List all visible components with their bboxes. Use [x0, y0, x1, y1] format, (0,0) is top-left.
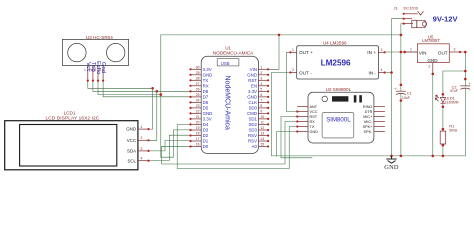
svg-text:5: 5 [260, 87, 262, 91]
svg-text:21: 21 [196, 115, 200, 119]
wire 3v3 top rail [161, 34, 401, 36]
ground symbol [384, 156, 399, 171]
svg-text:2: 2 [141, 136, 143, 140]
svg-text:D5: D5 [203, 106, 209, 111]
svg-text:ANT: ANT [310, 105, 318, 109]
wire ground bus [277, 155, 466, 157]
svg-text:RSV: RSV [248, 139, 257, 144]
svg-text:19: 19 [196, 126, 200, 130]
svg-text:1: 1 [292, 48, 294, 52]
svg-text:LM2596: LM2596 [321, 59, 351, 68]
wire sim gnd drop [277, 132, 298, 156]
svg-text:D0: D0 [203, 144, 209, 149]
svg-text:17: 17 [196, 137, 200, 141]
svg-text:CMD: CMD [247, 111, 257, 116]
svg-text:18: 18 [196, 132, 200, 136]
svg-text:SD1: SD1 [248, 117, 257, 122]
svg-text:NodeMCU-Amica: NodeMCU-Amica [223, 76, 230, 131]
wire 5v branch to led [443, 71, 465, 98]
wire sim rst drop [281, 117, 312, 158]
svg-text:GND: GND [310, 130, 319, 134]
svg-text:SD2: SD2 [248, 122, 257, 127]
wire led to r1 [442, 104, 444, 131]
svg-text:25: 25 [196, 93, 200, 97]
svg-text:1: 1 [141, 125, 143, 129]
wire D3 elbow [173, 130, 190, 157]
svg-text:47uF: 47uF [450, 89, 459, 93]
svg-text:D6: D6 [203, 100, 209, 105]
led LED1 [435, 95, 458, 104]
svg-text:TX: TX [203, 78, 209, 83]
svg-text:26: 26 [196, 87, 200, 91]
wire c1 lower lead [400, 94, 402, 156]
ultrasonic sensor U3 HC-SR04 [62, 35, 128, 82]
svg-text:D1: D1 [203, 139, 209, 144]
svg-text:16: 16 [196, 143, 200, 147]
regulator U5 LM7805T [405, 35, 467, 74]
svg-text:20: 20 [196, 120, 200, 124]
svg-text:EN: EN [251, 83, 257, 88]
svg-text:SIM800L: SIM800L [326, 117, 351, 124]
svg-text:7: 7 [260, 98, 262, 102]
wire D1 to lcd sda [149, 141, 191, 151]
svg-text:SCL: SCL [127, 158, 136, 163]
svg-text:MIC+: MIC+ [363, 115, 373, 119]
svg-text:OUT: OUT [438, 50, 448, 55]
svg-text:IN +: IN + [367, 50, 376, 55]
svg-text:3: 3 [141, 147, 143, 151]
svg-text:560Ω: 560Ω [449, 129, 458, 133]
svg-text:D8: D8 [203, 89, 209, 94]
svg-text:14: 14 [260, 137, 264, 141]
svg-text:RX: RX [310, 120, 316, 124]
buck converter U4 LM2596 [289, 40, 385, 79]
svg-text:10uF: 10uF [402, 96, 411, 100]
svg-text:CLK: CLK [248, 100, 257, 105]
svg-text:C1: C1 [407, 92, 412, 96]
svg-text:LCD DISPLAY 16X2 I2C: LCD DISPLAY 16X2 I2C [45, 116, 99, 121]
svg-text:GND: GND [427, 58, 438, 63]
svg-text:29: 29 [196, 71, 200, 75]
wire D0 to sim rx bus [162, 122, 298, 165]
svg-text:IN -: IN - [368, 70, 376, 75]
svg-text:OUT -: OUT - [299, 70, 312, 75]
wire VIN to rail [268, 35, 279, 69]
svg-text:LM7805T: LM7805T [422, 38, 440, 43]
svg-text:D2: D2 [203, 133, 209, 138]
wire lcd vcc riser [149, 91, 157, 140]
svg-text:LED5MM: LED5MM [445, 101, 459, 105]
svg-text:3: 3 [94, 68, 96, 72]
svg-text:SPK+: SPK+ [363, 125, 374, 129]
svg-text:SPK-: SPK- [364, 130, 374, 134]
svg-text:3.3V: 3.3V [203, 67, 212, 72]
svg-text:10: 10 [260, 115, 264, 119]
gsm module U2 SIM800L [296, 87, 385, 143]
wire 5v out column [464, 52, 466, 86]
resistor R1 [440, 124, 458, 144]
svg-text:TX: TX [310, 125, 315, 129]
svg-text:RX: RX [203, 83, 209, 88]
svg-text:MIC-: MIC- [364, 120, 373, 124]
svg-text:28: 28 [196, 76, 200, 80]
svg-text:GND: GND [126, 127, 136, 132]
wire in- stub [385, 72, 392, 74]
svg-text:RSV: RSV [248, 133, 257, 138]
svg-text:4: 4 [99, 68, 101, 72]
svg-text:U4 LM2596: U4 LM2596 [323, 40, 347, 45]
svg-text:4: 4 [381, 68, 383, 72]
svg-text:15: 15 [260, 143, 264, 147]
wire lcd gnd riser [149, 88, 153, 129]
svg-text:3: 3 [260, 76, 262, 80]
wire hc-sr04 Echo to D3 via bottom [98, 81, 161, 95]
svg-text:4: 4 [260, 82, 262, 86]
svg-text:GND: GND [203, 111, 213, 116]
svg-text:2: 2 [428, 65, 430, 69]
wire lm2596 out- to ground bus [271, 73, 290, 156]
svg-text:2: 2 [292, 68, 294, 72]
svg-text:13: 13 [260, 132, 264, 136]
svg-text:VCC: VCC [127, 138, 136, 143]
svg-text:NODEMCU-AMICA: NODEMCU-AMICA [213, 51, 254, 56]
svg-text:DTR: DTR [365, 110, 373, 114]
svg-text:1: 1 [410, 48, 412, 52]
svg-text:USB: USB [221, 61, 230, 66]
svg-text:U2 SIM800L: U2 SIM800L [326, 87, 352, 92]
wire rail left drop [161, 35, 174, 157]
svg-text:D3: D3 [203, 128, 209, 133]
svg-text:VIN: VIN [250, 67, 257, 72]
svg-text:SD0: SD0 [248, 106, 257, 111]
wire c2 lower lead [464, 88, 466, 155]
wire vin rail 9v [385, 51, 418, 53]
svg-text:OUT +: OUT + [299, 50, 313, 55]
svg-text:11: 11 [260, 120, 264, 124]
svg-text:D7: D7 [203, 95, 209, 100]
svg-text:30: 30 [196, 65, 200, 69]
svg-text:RST: RST [310, 115, 318, 119]
wire D4 to sim tx bus [177, 125, 297, 169]
svg-text:8: 8 [260, 104, 262, 108]
svg-text:12: 12 [260, 126, 264, 130]
svg-text:9V-12V: 9V-12V [433, 15, 459, 24]
wire jack gnd drop [392, 19, 404, 156]
svg-text:SD3: SD3 [248, 128, 257, 133]
svg-text:GND: GND [203, 72, 213, 77]
svg-text:23: 23 [196, 104, 200, 108]
wire D2 to lcd scl [149, 135, 191, 160]
wire 7805 gnd drop [432, 74, 434, 156]
svg-text:D4: D4 [203, 122, 209, 127]
dc jack J1 DCJ200 [394, 5, 459, 27]
wire hc-sr04 Trig to D8 [93, 81, 191, 92]
svg-text:3: 3 [454, 48, 456, 52]
U1 pins [189, 65, 269, 149]
svg-text:SDA: SDA [127, 149, 136, 154]
svg-text:4: 4 [141, 157, 143, 161]
svg-text:VIN: VIN [419, 50, 427, 55]
svg-text:27: 27 [196, 82, 200, 86]
svg-text:6: 6 [260, 93, 262, 97]
capacitor C2 [450, 81, 472, 93]
svg-text:GND: GND [247, 95, 257, 100]
lcd display LCD1 16X2 I2C [5, 111, 150, 170]
svg-text:Gnd: Gnd [100, 62, 106, 73]
svg-text:22: 22 [196, 109, 200, 113]
svg-text:GND: GND [247, 72, 257, 77]
svg-text:A0: A0 [252, 144, 258, 149]
svg-text:3.3V: 3.3V [248, 89, 257, 94]
svg-text:2: 2 [260, 71, 262, 75]
capacitor C1 [395, 86, 412, 100]
svg-text:RST: RST [248, 78, 257, 83]
svg-text:DCJ200: DCJ200 [404, 5, 419, 10]
svg-text:1: 1 [84, 68, 86, 72]
svg-text:GND: GND [384, 164, 399, 171]
microcontroller U1 NODEMCU-AMICA [201, 46, 258, 154]
svg-text:2: 2 [89, 68, 91, 72]
wire r1 to bus [442, 144, 444, 156]
svg-text:3: 3 [381, 48, 383, 52]
svg-text:3.3V: 3.3V [203, 117, 212, 122]
svg-text:VCC: VCC [310, 110, 318, 114]
wire jack plus drop [401, 24, 404, 92]
svg-text:24: 24 [196, 98, 200, 102]
wire lm2596 out+ to sim vcc [287, 52, 298, 111]
wire hc-sr04 Vcc to lcd gnd riser [88, 81, 153, 89]
svg-text:9: 9 [260, 109, 262, 113]
svg-text:1: 1 [260, 65, 262, 69]
svg-text:RING: RING [363, 105, 373, 109]
wire hc-sr04 Gnd to D7 [103, 81, 190, 97]
